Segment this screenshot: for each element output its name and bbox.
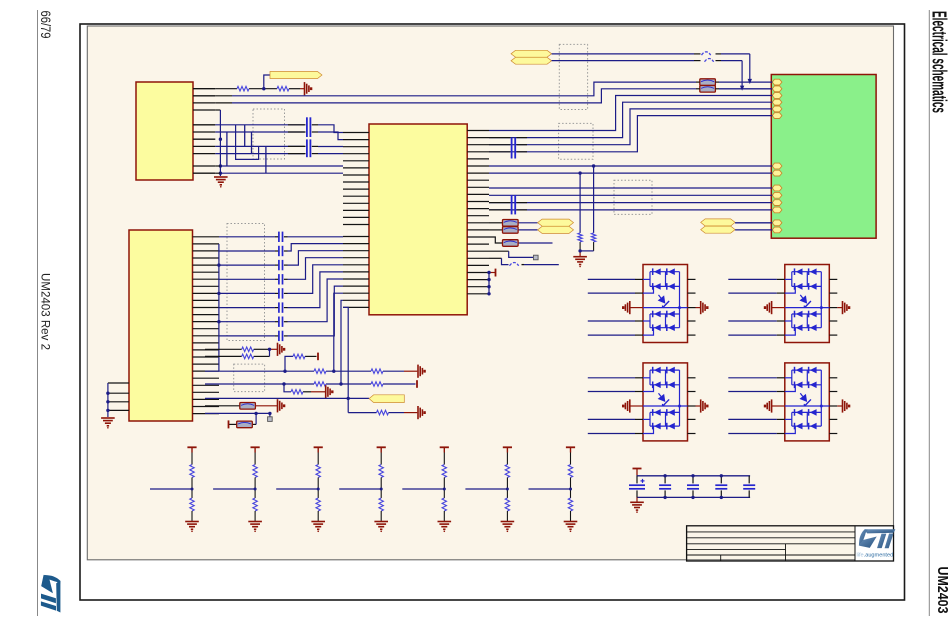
resistor divider RD5 (402, 447, 451, 532)
net flag N3 (511, 57, 552, 64)
wire weave row3 (215, 145, 304, 147)
wire U1 pin2 long net (215, 82, 696, 96)
wire inputs D2 (728, 279, 785, 335)
resistor divider RD3 (276, 447, 325, 532)
wire weave row1 (215, 124, 304, 126)
capacitor C7 (512, 195, 516, 214)
wire L4 (348, 412, 417, 414)
dotted outline DR3 (234, 364, 265, 392)
black cap segments top (489, 138, 527, 152)
ERC marker M5 (418, 406, 426, 419)
resistor R1 (237, 86, 249, 91)
wire cap out3 (318, 146, 343, 148)
power bar PWR5 (633, 469, 642, 476)
wire inputs D4 (728, 378, 785, 434)
resistor divider RD2 (213, 447, 262, 532)
power bar PWR1 (495, 269, 497, 277)
IC U3 (369, 124, 467, 315)
junction L1 (283, 370, 335, 373)
ground GND4 (630, 497, 644, 512)
junction U2 rail (217, 263, 220, 323)
resistor R2 (277, 86, 289, 91)
junction arrow J1 pin2 (740, 86, 744, 91)
ESD diode array D4 (785, 363, 838, 441)
ERC marker M6 (278, 399, 286, 412)
wire bead1 to J1 pin1 (719, 81, 772, 83)
net flag N5 (538, 226, 574, 233)
wire U1 pin11 net (215, 172, 343, 174)
wire staircase U3 to J1 (489, 96, 772, 152)
ferrite bead FB3 (503, 220, 519, 227)
junction rail U1 (219, 138, 222, 175)
ground GND3 (101, 418, 115, 429)
break mark B1 (702, 52, 711, 55)
junction U2 left rail (106, 392, 109, 413)
wire L2 branch (284, 384, 326, 392)
life.augmented text (857, 553, 894, 559)
capacitor C3 (307, 139, 311, 157)
junction pin1 (262, 87, 265, 90)
svg-text:UM2403 Rev 2: UM2403 Rev 2 (38, 273, 52, 350)
ERC marker M4 (326, 385, 334, 398)
resistor R12 (291, 390, 303, 395)
wire U3 to J1 n1 (489, 165, 772, 167)
ERC marker M3 (418, 365, 426, 378)
wire vert U3p10 (341, 300, 343, 384)
break mark B3 (510, 263, 519, 266)
wire vert U3p9 (334, 293, 343, 371)
page margin rule left (37, 10, 39, 616)
wire weave row4 (215, 153, 304, 155)
wire R7 net (285, 356, 317, 371)
U3 left pin stubs (343, 133, 369, 308)
ferrite bead FB5 (503, 240, 519, 247)
power bar PWR2 (317, 353, 319, 361)
ERC marker D3 left (622, 399, 643, 412)
net flag N1 (270, 72, 322, 79)
dotted outline DR4 (559, 44, 587, 109)
wire RB (205, 349, 270, 356)
wire cap out1 (318, 125, 343, 133)
IC U2 (129, 230, 193, 421)
resistor R3 (578, 233, 582, 242)
ESD diode array D1 (643, 265, 696, 343)
junction L2a (282, 382, 342, 385)
capacitor C11 (659, 476, 671, 498)
wire FB6 net (205, 405, 277, 407)
wire inputs D3 (588, 378, 643, 434)
wire weave v4 (251, 132, 253, 154)
svg-text:life.augmented: life.augmented (857, 553, 894, 559)
ground GND2 (573, 257, 587, 268)
test pad P1 (534, 255, 539, 260)
capacitor C14 (743, 476, 755, 498)
resistor divider RD7 (529, 447, 578, 532)
ST logo page corner (41, 575, 61, 613)
wire row 413.4 (205, 413, 270, 416)
wire U2 to caps (219, 237, 288, 336)
ERC marker D3 right (696, 399, 709, 412)
schematic sheet background (87, 26, 893, 560)
wire U1 pin3 long net (215, 89, 696, 103)
U1 right pin stubs (193, 89, 215, 174)
capacitor C5 (512, 138, 516, 159)
ERC marker D2 left (764, 301, 785, 314)
wire flag N1 stem (264, 75, 270, 89)
IC U1 (136, 82, 193, 180)
U2 right pin stubs (193, 237, 219, 414)
wire pull resistor net (580, 166, 594, 257)
capacitor C13 (715, 476, 727, 498)
net flag N2 (511, 50, 552, 57)
dotted outline DR1 (253, 109, 285, 159)
dotted outline DR2 (227, 224, 265, 341)
wire L1 (205, 370, 417, 372)
ground GND1 (214, 177, 228, 188)
resistor divider RD6 (465, 447, 514, 532)
resistor R7 (293, 354, 305, 359)
net flag N8 (369, 395, 404, 403)
wire U1 pin10 net (215, 165, 343, 167)
break mark B2 (705, 59, 714, 62)
wire break net (489, 258, 559, 264)
junction pull2 (578, 171, 581, 174)
wire weave row2 (215, 131, 304, 133)
black cap segments U1 (288, 125, 318, 154)
junction pull3 (578, 249, 581, 252)
junction power rail (487, 271, 490, 296)
resistor R9 (371, 369, 383, 374)
wire cap staircase to U3 (288, 237, 344, 336)
resistor R5 (242, 347, 254, 352)
page number 66/79 (38, 11, 53, 39)
wire vert U3p11 (343, 307, 348, 412)
wire bead row1 (489, 222, 538, 224)
net flag N6 (701, 219, 735, 226)
resistor R4 (591, 233, 595, 242)
net flag N7 (701, 226, 735, 233)
wire inputs D1 (588, 279, 643, 335)
svg-text:Electrical schematics: Electrical schematics (927, 11, 949, 113)
svg-text:66/79: 66/79 (38, 11, 53, 39)
black cap segments g3 (489, 203, 527, 210)
ferrite bead FB1 (696, 79, 719, 86)
ERC marker M1 (305, 82, 313, 95)
ERC marker M2 (278, 343, 286, 356)
resistor divider RD1 (150, 447, 199, 532)
wire N2 net (552, 54, 750, 82)
wire FB7 net (229, 413, 256, 424)
power bar PWR3 (416, 380, 418, 388)
ERC marker D4 right (837, 399, 850, 412)
connector J1 (771, 75, 876, 239)
ERC marker D1 left (622, 301, 643, 314)
connector J1 pins (772, 79, 782, 233)
footer text UM2403 Rev 2 (38, 273, 52, 350)
capacitor C1 (307, 117, 311, 137)
wire bead2 to J1 pin2 (719, 88, 772, 90)
resistor divider RD4 (339, 447, 388, 532)
title block table (687, 526, 894, 561)
wire weave v2 (236, 125, 259, 160)
ferrite bead FB7 (237, 421, 253, 428)
wire bead3 net (489, 237, 553, 243)
wire weave v5 (265, 146, 267, 173)
junction cap bank (663, 474, 723, 499)
junction L3 (347, 397, 350, 400)
U2 left pins to ground (108, 383, 129, 417)
wire RA (205, 348, 277, 350)
resistor R11 (371, 382, 383, 387)
wire L3 (205, 397, 369, 399)
page margin rule right (928, 10, 930, 616)
ferrite bead FB6 (240, 403, 256, 410)
ERC marker D4 left (764, 399, 785, 412)
capacitor C12 (687, 476, 699, 498)
header text Electrical schematics (927, 11, 949, 113)
U3 right pin stubs (467, 131, 489, 294)
wire U1 pin1 (215, 88, 304, 90)
junction arrow J1 pin1 (748, 79, 752, 84)
wire cap out4 (318, 153, 343, 155)
resistor R10 (314, 382, 326, 387)
resistor R6 (242, 354, 254, 359)
junction pull1 (592, 164, 595, 167)
dotted outline DR5 (559, 123, 593, 159)
ST logo title block (859, 529, 895, 548)
capacitor bank CB1 (279, 232, 283, 342)
net flag N4 (538, 219, 574, 226)
resistor R13 (377, 410, 389, 415)
wire flag to J1 p14 (735, 229, 772, 231)
wire U3 to J1 group3 (489, 188, 772, 210)
wire cap bank rails (637, 476, 751, 498)
resistor R8 (314, 369, 326, 374)
ferrite bead FB4 (503, 227, 519, 234)
junction RA/RB (268, 348, 271, 351)
ERC marker D2 right (837, 301, 850, 314)
wire U3 to J1 n2 (489, 172, 772, 174)
wire cap out2 (318, 132, 343, 140)
ESD diode array D2 (785, 265, 838, 343)
wire L2 (205, 383, 416, 385)
wire pad net (489, 251, 533, 257)
svg-text:UM2403: UM2403 (934, 567, 950, 614)
wire N3 net (552, 61, 743, 89)
wire flag to J1 p13 (735, 222, 772, 224)
dotted outline DR6 (614, 180, 652, 214)
schematic outer frame (80, 24, 905, 600)
wire U2 rail (218, 244, 220, 371)
capacitor C10 (629, 476, 645, 498)
wire U1 pin4 ground rail (215, 110, 220, 176)
ESD diode array D3 (643, 363, 696, 441)
test pad P2 (268, 417, 273, 422)
wire power rail U3 (489, 273, 496, 294)
ERC marker D1 right (696, 301, 709, 314)
power bar PWR4 (228, 420, 230, 428)
junction row 413.4 (254, 412, 271, 415)
wire weave v1 (226, 132, 228, 166)
footer text UM2403 (934, 567, 950, 614)
wire weave v3 (244, 125, 246, 147)
wire bead row2 (489, 229, 538, 231)
ferrite bead FB2 (696, 86, 719, 93)
